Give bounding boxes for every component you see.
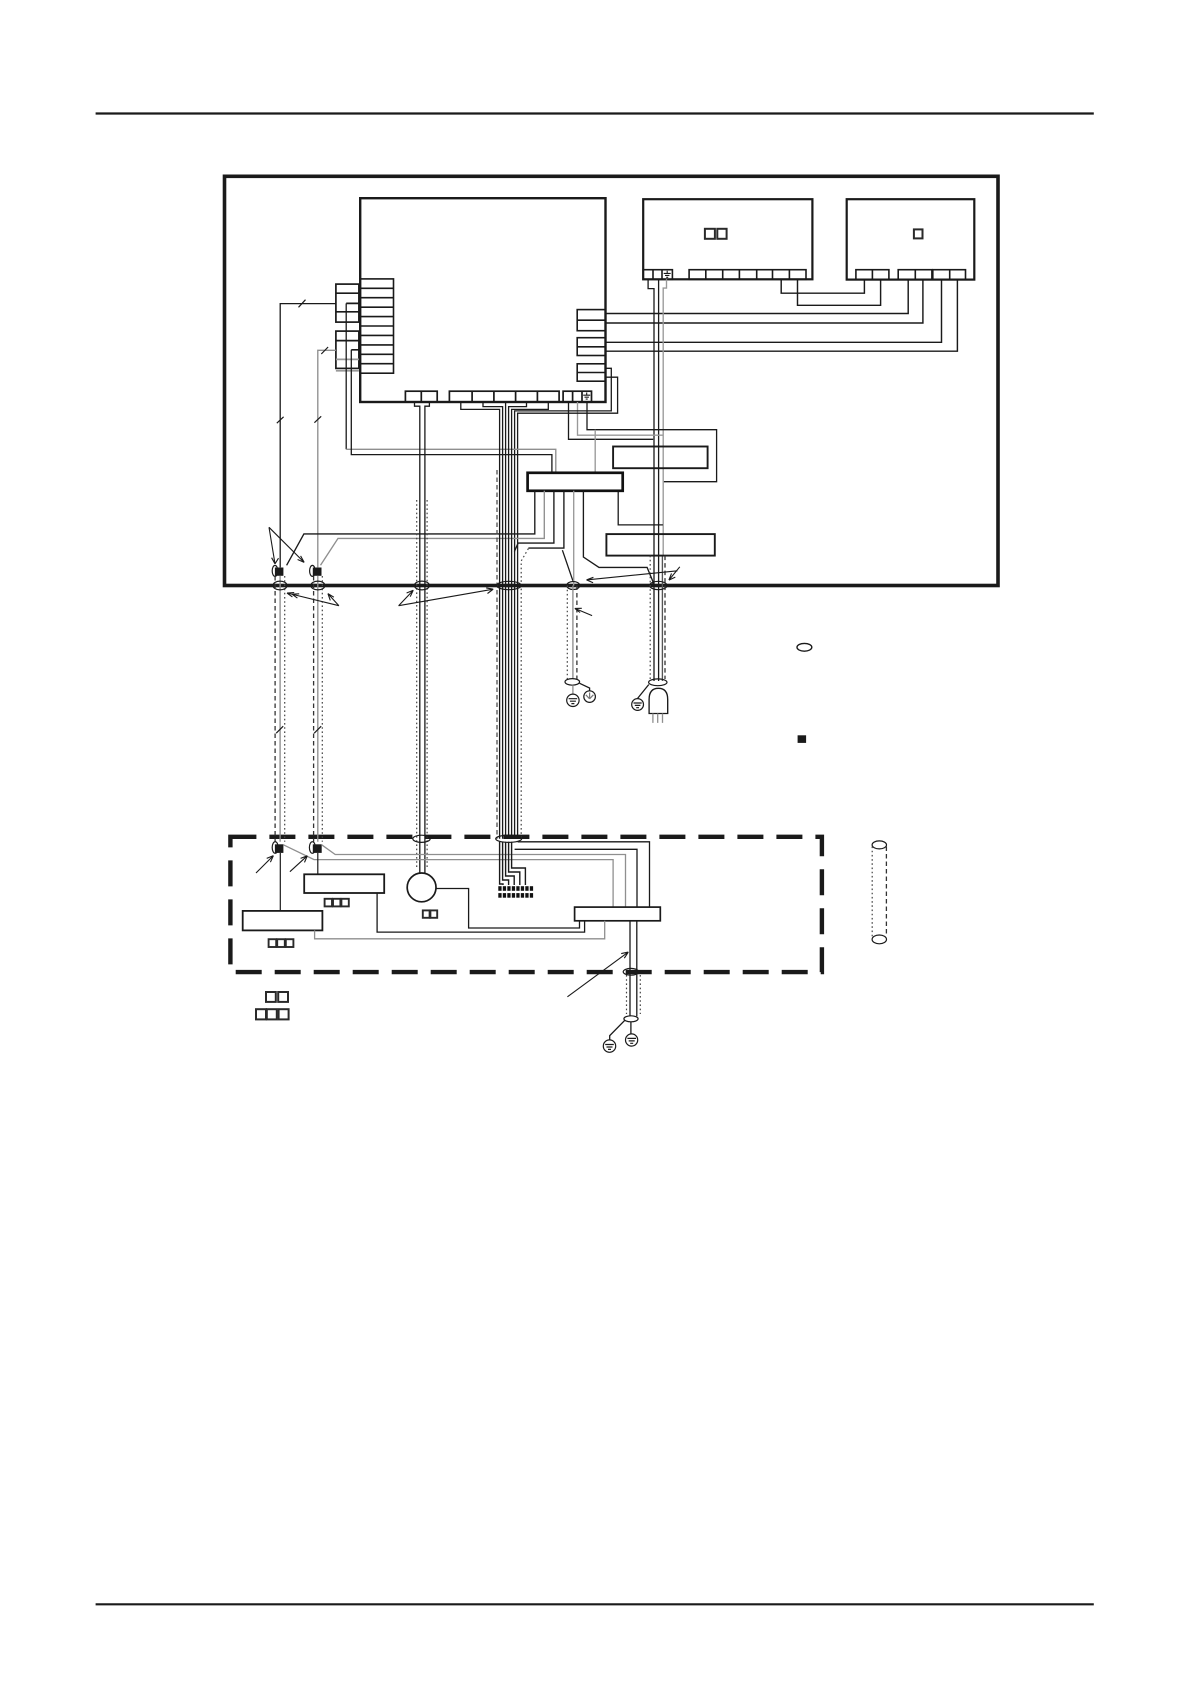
inlet box (606, 534, 714, 556)
gray stub to relay block top (594, 430, 596, 473)
harness branch to AC connector line A (518, 842, 650, 907)
leader arrow AC output pair (567, 952, 628, 997)
ground path 3-cell connector cell3 (587, 402, 717, 482)
grommet ellipse tube2 (311, 581, 325, 590)
relay out 6 to cord side (583, 491, 653, 586)
wire U-A left box to right box (781, 279, 864, 293)
relay out 1 to terminal 1 (287, 491, 535, 566)
top-right unit box (847, 199, 975, 279)
left mating connector block 1 (336, 284, 359, 322)
left pin strip CN1 (360, 279, 393, 373)
wire right box to PCB G1 row1 (606, 280, 909, 314)
grommet ellipse motor tube (414, 581, 429, 590)
wire 3-cell connector cell1 to power wire A (569, 402, 654, 439)
bottom rule (96, 1603, 1094, 1605)
harness tube edges (497, 470, 528, 839)
plug earth screw (632, 699, 644, 711)
strand tick on W2 vertical (314, 416, 321, 422)
grommet ellipse at chassis bottom (623, 968, 638, 975)
gray wire W2 to terminal 2 (318, 350, 336, 567)
harness wire cell5 (512, 402, 549, 839)
plug earth lead (638, 685, 649, 699)
bottom 5-cell connector (449, 391, 559, 402)
tofu label under box1 (269, 939, 294, 947)
chassis terminal 1 (272, 842, 283, 854)
cord end ellipse (649, 679, 667, 686)
relay out 4 to harness (528, 491, 564, 548)
earth tube branch diagonal (562, 550, 573, 581)
strand tick on W2 (321, 347, 328, 354)
wire right box to PCB G2 row1 (606, 280, 942, 343)
wire right box to PCB G2 row2 (606, 280, 958, 352)
strand tick on W1 vertical (277, 417, 284, 423)
motor M (407, 873, 436, 902)
tofu label under motor (423, 910, 437, 917)
gray wire to relay block (346, 449, 556, 473)
wire left connector pin down (345, 303, 347, 449)
leader arrow earth tube mid (575, 608, 592, 615)
terminal 1 (upper) (272, 565, 283, 576)
power wire A from left box cell A (648, 279, 654, 681)
legend hole ellipse (797, 643, 812, 651)
bottom 3-cell connector with ground (563, 391, 591, 402)
gray wire terminal2 to AC connector (322, 845, 626, 907)
top-left box 7-cell row (689, 270, 806, 280)
AC outlet connector (575, 907, 661, 921)
tube 2 to chassis (314, 576, 323, 842)
harness fan to pin block (500, 842, 526, 885)
gray ground wire from left box cell C (663, 279, 666, 555)
cord third conductor below inlet (661, 556, 663, 681)
wire from relay block bottom to ground line (618, 491, 663, 525)
wire right box to PCB G1 row2 (606, 280, 923, 323)
terminal 2 (upper) (310, 565, 322, 576)
earth screw 4 (626, 1034, 638, 1046)
motor tube dotted edges (417, 500, 427, 869)
top-left unit box (643, 199, 812, 279)
right pin group G3 (577, 364, 605, 381)
harness wire cell3 (505, 402, 507, 839)
grommet ellipse cord (650, 581, 667, 589)
wire terminal1 to unit box1 (279, 853, 281, 911)
tofu label under box2 (325, 899, 349, 907)
grommet ellipse earth tube (567, 582, 580, 590)
top-right box cell group 2 (898, 270, 932, 280)
grommet ellipse motor tube at chassis (413, 835, 430, 842)
tofu label in top-left box (705, 229, 727, 239)
tube 1 to chassis (275, 576, 285, 842)
unit box 2 (304, 874, 384, 893)
relay out 3 to harness (514, 491, 554, 552)
wire motor to AC connector (436, 889, 580, 929)
cord end ellipse 2 (624, 1016, 638, 1022)
harness wire cell1 (461, 402, 500, 839)
harness wire cell2 (483, 402, 503, 839)
dashed chassis box (230, 837, 822, 972)
top-right box cell group 1 (856, 270, 889, 280)
plug prongs (653, 714, 663, 723)
tofu label triple below chassis (256, 1009, 289, 1019)
harness wire cell4 (509, 402, 527, 839)
earth screw 4 lead (630, 1022, 632, 1034)
right pin group G2 (577, 338, 605, 356)
right pin group G1 (577, 310, 605, 331)
wire box2 to AC connector (377, 893, 584, 932)
earth screw 3 lead (610, 1020, 625, 1040)
strand tick on W1 (299, 300, 306, 308)
ground symbol in 3-cell connector (583, 393, 590, 400)
earth screw 1 lead (572, 685, 574, 694)
grommet ellipse harness (497, 581, 522, 589)
motor wire funnel right (425, 402, 430, 873)
power cord tube (650, 556, 665, 679)
gray wire box1 to AC connector (315, 921, 605, 939)
leader arrows to terminals (upper) (269, 527, 304, 564)
wire PCB G3 row1 to harness (515, 368, 612, 839)
motor wire funnel left (415, 402, 420, 873)
relay block (bold) (528, 473, 623, 491)
AC connector output pair (630, 921, 637, 1017)
legend terminal square (798, 735, 807, 743)
leader arrows chassis terminals (256, 856, 307, 873)
wire terminal2 to unit box2 (317, 853, 319, 874)
wire W1 to terminal 1 (280, 304, 336, 568)
leader arrows motor tube and harness (399, 588, 494, 606)
wire left connector to relay block 2 (351, 350, 552, 473)
earth tube below box (567, 586, 577, 680)
leader arrow cord tube (669, 567, 680, 580)
tofu label pair below chassis (266, 992, 288, 1002)
earth screw 2 (chassis) (584, 691, 596, 703)
grommet ellipse tube1 (273, 581, 287, 590)
gray wire terminal1 to AC connector (283, 845, 613, 907)
pin block (498, 886, 533, 897)
main PCB box (360, 198, 605, 402)
wire U-B left box to right box (798, 279, 881, 305)
filter box (613, 447, 708, 469)
output pair dotted edges (627, 975, 641, 1014)
grommet ellipse harness at chassis (496, 835, 522, 842)
leader arrow earth tube (long) (587, 571, 678, 583)
earth tube end ellipse (565, 679, 580, 686)
plug body (649, 688, 668, 713)
ground symbol in cell C (664, 271, 671, 278)
gray branch to 3-cell connector cell2 (578, 402, 664, 435)
leader double arrow tubes 1-2 (287, 593, 339, 606)
top-right box cell group 3 (933, 270, 966, 280)
outer enclosure box (225, 176, 999, 585)
relay out 2 to terminal 2 (gray) (321, 491, 545, 566)
left mating connector block 2 (336, 331, 359, 371)
power wire B from left box cell B (658, 279, 660, 681)
relay out 5 gray (573, 491, 575, 586)
top rule (96, 112, 1094, 114)
earth screw 2 lead (580, 683, 590, 691)
legend tube cylinder (872, 841, 886, 944)
harness branch to AC connector line B (515, 849, 637, 907)
top-left box bottom cells A B C(gnd) (643, 270, 672, 280)
earth screw 3 (603, 1040, 615, 1052)
bottom 2-cell connector (405, 391, 437, 402)
tofu label in top-right box (914, 229, 923, 238)
chassis terminal 2 (309, 842, 321, 854)
earth screw 1 (567, 694, 579, 706)
unit box 1 (243, 911, 323, 931)
wire PCB G3 row2 to harness (518, 377, 618, 839)
